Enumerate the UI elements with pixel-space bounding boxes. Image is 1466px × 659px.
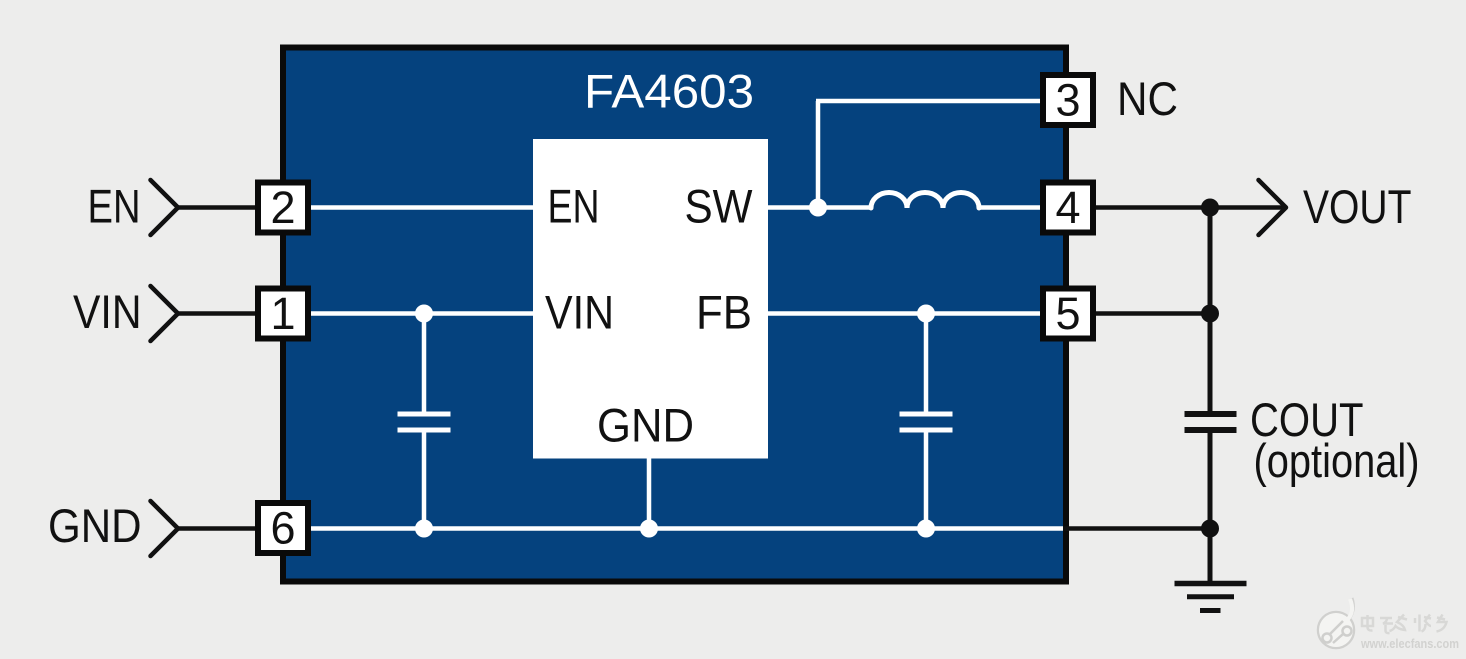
wire pin5 to COUT net [1096,311,1210,316]
wire pin4 to VOUT [1096,205,1284,210]
svg-text:VIN: VIN [73,285,142,338]
svg-text:2: 2 [270,182,295,233]
capacitor COUT plates [1185,414,1237,430]
wire FB core to pin5 [768,311,1040,316]
watermark wordmark [1362,615,1447,634]
capacitor C1 plates [398,414,451,430]
VIN input arrow [151,286,179,341]
VIN input lead [178,311,256,316]
svg-text:6: 6 [270,503,295,554]
IC package U1 (blue body) [283,48,1066,582]
node FB junction [917,305,935,323]
inductor L1 [871,193,979,209]
pin box 1 [258,289,308,339]
svg-text:VOUT: VOUT [1303,180,1412,233]
pin box 3 [1043,75,1093,125]
wire NC riser to pin3 [816,101,1040,210]
svg-text:VIN: VIN [545,286,614,339]
node GND-core junction [640,520,658,538]
wire core GND stub [647,459,652,529]
svg-text:(optional): (optional) [1254,434,1420,487]
node GND-C1 junction [415,520,433,538]
wire EN pin2 to core [311,205,533,210]
capacitor C2 plates [900,414,953,430]
wire inductor to pin4 [979,205,1040,210]
pin box 2 [258,183,308,233]
svg-text:EN: EN [88,180,141,233]
GND input lead [178,526,256,531]
wire SW stub [768,205,871,210]
svg-text:FB: FB [696,286,752,339]
ground symbol [1175,581,1247,587]
node SW junction [809,199,827,217]
svg-text:EN: EN [548,180,600,233]
svg-text:5: 5 [1055,288,1080,339]
pin box 4 [1043,183,1093,233]
svg-text:www.elecfans.com: www.elecfans.com [1360,637,1459,651]
GND input arrow [151,501,179,556]
pin box 6 [258,503,308,553]
wire GND rail [311,526,1063,531]
node VIN junction [415,305,433,323]
VOUT arrow [1259,180,1287,235]
svg-text:FA4603: FA4603 [584,65,754,118]
svg-text:NC: NC [1117,72,1178,125]
node GND-COUT junction [1201,520,1219,538]
svg-text:GND: GND [597,399,694,452]
node FB-COUT junction [1201,305,1219,323]
regulator core block (white box) [533,139,768,459]
wire VIN pin1 to core [311,311,533,316]
svg-text:SW: SW [685,180,754,233]
node VOUT junction [1201,199,1219,217]
svg-text:3: 3 [1055,75,1080,126]
EN input lead [178,205,256,210]
node GND-C2 junction [917,520,935,538]
svg-text:4: 4 [1055,182,1080,233]
wire GND rail extension [1063,526,1210,531]
EN input arrow [151,180,179,235]
svg-text:1: 1 [270,288,295,339]
svg-text:GND: GND [48,499,142,552]
capacitor C1 riser [422,314,427,529]
pin box 5 [1043,289,1093,339]
COUT net vertical wire [1208,208,1213,584]
watermark logo [1318,598,1354,648]
capacitor C2 riser [924,314,929,529]
